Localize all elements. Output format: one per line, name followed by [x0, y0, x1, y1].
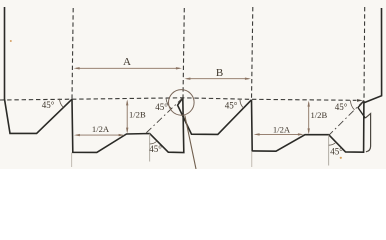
paper background: [0, 0, 386, 169]
svg-text:1/2A: 1/2A: [92, 124, 110, 134]
angle arc 45 no5: [150, 141, 157, 144]
dimension 1/2B left: [126, 102, 128, 132]
dimension B line: [187, 78, 249, 80]
fold line arrow right end: [357, 99, 363, 102]
fold line vertical 1: [72, 8, 73, 99]
faint edge extension below flap A2 corner: [251, 151, 253, 167]
orange speck left: [10, 40, 12, 42]
angle arc 45 no6: [329, 142, 336, 145]
construction vertical no6: [328, 135, 330, 166]
angle arc 45 no3: [240, 100, 243, 108]
orange speck right: [340, 157, 342, 159]
fold line vertical 4: [363, 7, 366, 100]
dash-dot 45 line right: [329, 100, 364, 135]
svg-text:1/2B: 1/2B: [311, 110, 328, 120]
svg-text:45°: 45°: [42, 100, 55, 110]
svg-text:B: B: [216, 67, 223, 79]
dimension A line: [76, 67, 180, 69]
dimension 1/2A right flap: [256, 133, 302, 135]
svg-text:45°: 45°: [155, 102, 168, 112]
dimension 1/2B right: [308, 103, 310, 133]
fold line horizontal (dashed): [0, 98, 357, 101]
fold line vertical 2: [183, 8, 184, 98]
dash-dot 45 line left: [145, 98, 184, 135]
blank left edge and left flap outline: [5, 7, 73, 133]
dimension 1/2A left flap: [76, 134, 122, 136]
svg-text:45°: 45°: [149, 144, 162, 154]
detail circle: [169, 90, 195, 116]
leader line: [185, 115, 196, 169]
glue tab: [365, 114, 370, 152]
flap A2 outline: [252, 100, 364, 152]
flap A1 outline: [72, 98, 184, 153]
svg-text:1/2A: 1/2A: [273, 125, 291, 135]
fold line vertical 3: [252, 7, 253, 100]
svg-text:45°: 45°: [225, 101, 238, 111]
svg-text:45°: 45°: [330, 147, 343, 157]
angle arc 45 no4: [351, 100, 355, 110]
svg-text:45°: 45°: [335, 102, 348, 112]
flap B outline: [178, 98, 252, 135]
angle arc 45 no1: [60, 99, 64, 108]
angle arc 45 no2: [166, 98, 171, 108]
construction vertical no5: [149, 134, 151, 162]
faint edge extension below flap A1 corner: [71, 153, 73, 168]
svg-text:A: A: [123, 56, 131, 68]
blank right edge: [364, 8, 381, 103]
notch at right fold point: [358, 101, 365, 119]
svg-text:1/2B: 1/2B: [129, 110, 146, 120]
